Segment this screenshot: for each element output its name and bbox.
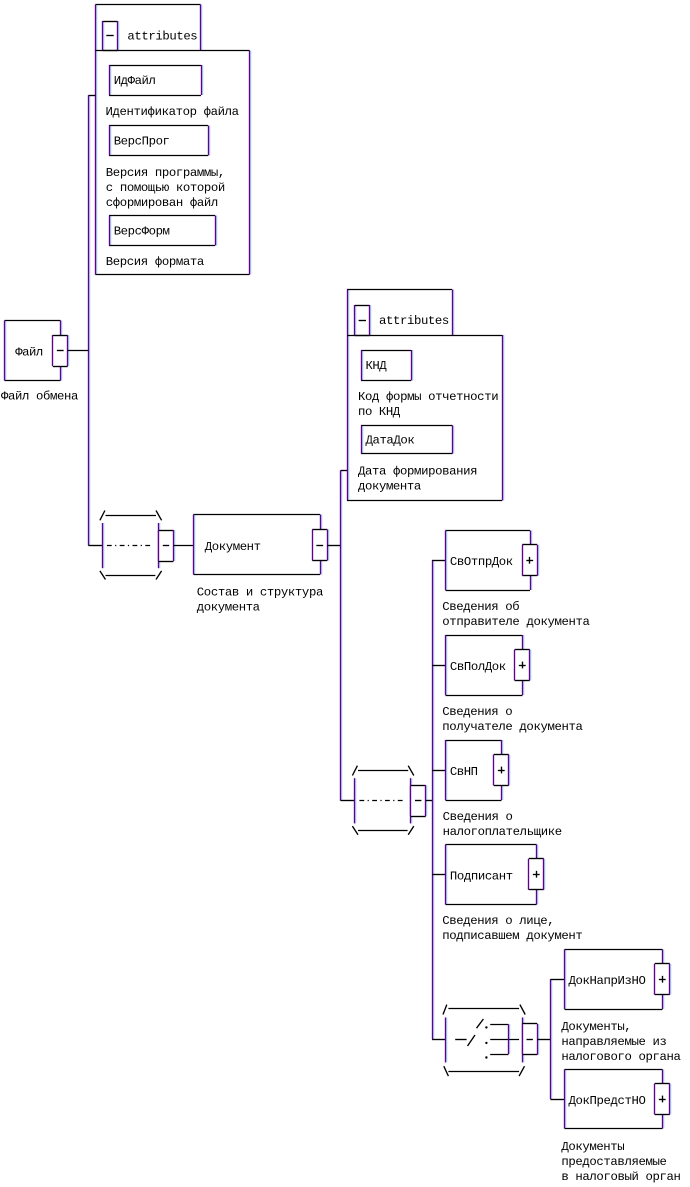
annotation Документы предоставляемые в налоговый орган xyxy=(561,1140,681,1184)
svg-text:Версия программы,: Версия программы, xyxy=(106,166,226,180)
wire sequence1 to Документ xyxy=(174,545,194,547)
svg-text:в налоговый орган: в налоговый орган xyxy=(561,1170,681,1184)
wire tick to attributes U2 xyxy=(341,470,347,472)
element box Подписант xyxy=(446,845,537,905)
attribute box ИдФайл xyxy=(109,65,202,96)
attribute box ВерсФорм xyxy=(109,216,216,246)
svg-text:ДокНапрИзНО: ДокНапрИзНО xyxy=(569,974,646,988)
svg-text:Сведения о: Сведения о xyxy=(442,705,512,719)
svg-text:по КНД: по КНД xyxy=(358,405,401,419)
svg-text:СвОтпрДок: СвОтпрДок xyxy=(450,555,513,569)
annotation Документы направляемые из налогового органа xyxy=(561,1020,681,1064)
svg-text:Сведения о: Сведения о xyxy=(443,810,513,824)
svg-text:Документы: Документы xyxy=(561,1140,624,1154)
svg-text:с помощью которой: с помощью которой xyxy=(106,181,226,195)
wire to СвПолДок xyxy=(432,665,445,667)
svg-text:налогового органа: налогового органа xyxy=(561,1050,681,1064)
expand box minus (attributes U1) xyxy=(103,21,118,51)
svg-text:отправителе документа: отправителе документа xyxy=(442,615,590,629)
expand box plus (Подписант) xyxy=(529,859,544,890)
annotation Код формы отчетности по КНД xyxy=(358,390,499,419)
wire Файл to trunk1 xyxy=(68,350,89,352)
element box Документ xyxy=(194,515,321,575)
attributes panel U2 outline xyxy=(347,290,503,501)
expand box plus (СвНП) xyxy=(494,755,509,786)
attributes panel U1 outline xyxy=(95,5,249,275)
sequence icon 1 xyxy=(100,511,174,580)
sequence icon 2 xyxy=(352,766,425,835)
svg-text:attributes: attributes xyxy=(127,30,197,44)
annotation Дата формирования документа xyxy=(358,465,478,494)
wire choice to grandchild trunk xyxy=(537,1039,550,1041)
element box ДокНапрИзНО xyxy=(565,950,663,1010)
wire to ДокПредстНО xyxy=(550,1099,564,1101)
svg-text:Идентификатор файла: Идентификатор файла xyxy=(106,105,240,119)
svg-text:ВерсПрог: ВерсПрог xyxy=(114,135,170,149)
svg-text:Документы,: Документы, xyxy=(561,1020,631,1034)
svg-text:КНД: КНД xyxy=(366,359,388,373)
element box СвНП xyxy=(446,740,502,801)
svg-text:ВерсФорм: ВерсФорм xyxy=(114,225,170,239)
svg-text:СвПолДок: СвПолДок xyxy=(450,660,506,674)
expand box plus (СвОтпрДок) xyxy=(522,545,537,576)
svg-text:Файл обмена: Файл обмена xyxy=(1,390,78,404)
svg-text:документа: документа xyxy=(358,480,421,494)
svg-text:налогоплательщике: налогоплательщике xyxy=(443,825,563,839)
annotation Сведения о получателе документа xyxy=(442,705,583,734)
wire trunk1 vertical xyxy=(88,95,90,545)
wire trunk2 vertical xyxy=(340,470,342,800)
annotation Версия программы xyxy=(106,166,226,210)
svg-text:attributes: attributes xyxy=(379,314,449,328)
wire tick to attributes U1 xyxy=(88,95,95,97)
svg-text:СвНП: СвНП xyxy=(450,765,478,779)
svg-text:получателе документа: получателе документа xyxy=(442,720,583,734)
svg-text:Дата формирования: Дата формирования xyxy=(358,465,478,479)
attribute box КНД xyxy=(361,350,412,381)
annotation Состав и структура документа xyxy=(197,586,324,615)
expand box minus (Документ) xyxy=(312,530,327,561)
wire to choice icon xyxy=(432,1039,446,1041)
attribute box ВерсПрог xyxy=(109,126,209,156)
svg-text:ДатаДок: ДатаДок xyxy=(366,434,415,448)
expand box plus (ДокПредстНО) xyxy=(655,1084,670,1115)
svg-text:документа: документа xyxy=(197,601,260,615)
expand box plus (ДокНапрИзНО) xyxy=(655,964,670,995)
annotation Сведения об отправителе документа xyxy=(442,600,590,629)
wire Документ to trunk2 xyxy=(327,545,340,547)
svg-text:ДокПредстНО: ДокПредстНО xyxy=(569,1094,646,1108)
svg-text:Версия формата: Версия формата xyxy=(106,255,204,269)
svg-text:ИдФайл: ИдФайл xyxy=(114,74,156,88)
element box ДокПредстНО xyxy=(565,1070,663,1129)
expand box plus (СвПолДок) xyxy=(515,650,530,681)
expand box minus (attributes U2) xyxy=(355,305,370,336)
wire trunk1 to sequence1 xyxy=(88,545,102,547)
element box Файл xyxy=(5,321,61,381)
svg-text:Файл: Файл xyxy=(15,345,43,359)
wire trunk2 to sequence2 xyxy=(341,800,355,802)
svg-text:сформирован файл: сформирован файл xyxy=(106,196,218,210)
expand box minus (Файл) xyxy=(53,335,68,367)
wire to СвНП xyxy=(432,770,445,772)
wire sequence2 to child trunk xyxy=(426,800,433,802)
svg-text:Сведения об: Сведения об xyxy=(442,600,519,614)
svg-text:Сведения о лице,: Сведения о лице, xyxy=(442,914,554,928)
svg-text:Подписант: Подписант xyxy=(450,869,513,883)
choice icon xyxy=(443,1005,538,1077)
svg-text:подписавшем документ: подписавшем документ xyxy=(442,929,583,943)
svg-text:предоставляемые: предоставляемые xyxy=(561,1155,666,1169)
attribute box ДатаДок xyxy=(361,426,453,454)
svg-text:Код формы отчетности: Код формы отчетности xyxy=(358,390,499,404)
svg-text:Состав и структура: Состав и структура xyxy=(197,586,324,600)
wire to Подписант xyxy=(432,874,445,876)
wire to ДокНапрИзНО xyxy=(550,979,564,981)
wire child trunk vertical xyxy=(432,560,434,1039)
annotation Сведения о лице подписавшем документ xyxy=(442,914,583,943)
svg-text:направляемые из: направляемые из xyxy=(561,1035,666,1049)
wire grandchild trunk vertical xyxy=(550,979,552,1099)
element box СвОтпрДок xyxy=(446,531,531,591)
element box СвПолДок xyxy=(446,635,523,696)
annotation Сведения о налогоплательщике xyxy=(443,810,563,839)
svg-text:Документ: Документ xyxy=(205,540,261,554)
wire to СвОтпрДок xyxy=(432,560,445,562)
